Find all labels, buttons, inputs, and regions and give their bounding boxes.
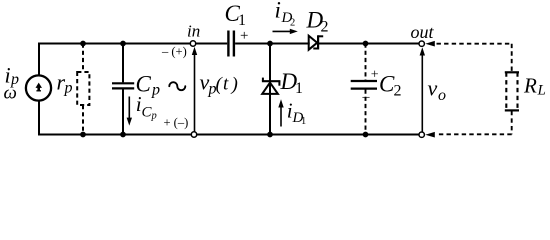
svg-text:1: 1	[301, 116, 306, 127]
wire top rail between C1 and D2	[235, 43, 310, 45]
label iCp	[136, 92, 157, 122]
current source ip circle	[26, 75, 51, 100]
junction dot D1 top	[267, 41, 273, 47]
capacitor C2 plates	[351, 81, 377, 89]
wire top rail left (from top-left corner to C1 left plate)	[39, 44, 227, 135]
svg-text:+: +	[240, 28, 248, 44]
label in	[187, 22, 200, 41]
label vo	[428, 76, 447, 104]
svg-text:2: 2	[394, 82, 402, 99]
svg-text:+ (–): + (–)	[164, 115, 189, 129]
label Cp	[136, 72, 161, 99]
svg-text:p: p	[64, 80, 73, 97]
label minus at C2	[362, 90, 371, 105]
capacitor C2 dashed lead top	[365, 44, 367, 81]
label iD2	[275, 0, 296, 29]
svg-text:o: o	[438, 87, 446, 104]
label iD1	[287, 99, 306, 128]
capacitor Cp bottom lead	[122, 89, 124, 134]
resistor rp dashed lead bottom	[82, 105, 84, 135]
label C2	[379, 71, 402, 99]
capacitor Cp plates	[112, 83, 134, 88]
dashed wire out to RL (top)	[437, 43, 512, 45]
svg-text:R: R	[523, 74, 537, 98]
current arrow iD1 (up)	[278, 99, 283, 126]
label out	[411, 22, 435, 42]
label minus(plus)	[161, 44, 187, 58]
label C1	[225, 1, 247, 29]
dashed wire RL right side top	[511, 44, 513, 72]
svg-text:+: +	[371, 68, 379, 83]
node out bottom (open circle)	[419, 132, 424, 137]
svg-text:1: 1	[295, 80, 303, 97]
dashed wire RL right side bottom	[511, 111, 513, 135]
junction dot C2 bottom	[363, 132, 369, 138]
dashed wire RL to out node (bottom)	[437, 133, 512, 135]
wire top rail from D2 to out node	[317, 43, 419, 45]
label plus at C1	[240, 28, 248, 44]
label rp	[57, 70, 73, 97]
svg-text:– (+): – (+)	[161, 44, 187, 58]
capacitor C2 dashed lead bottom	[365, 90, 367, 135]
vp measurement line with up arrow	[192, 47, 197, 135]
wire bottom rail	[38, 134, 419, 136]
svg-text:out: out	[411, 22, 435, 42]
node in (open circle)	[190, 41, 195, 46]
svg-text:i: i	[275, 0, 281, 23]
svg-text:p: p	[151, 111, 157, 122]
label ip	[5, 62, 20, 88]
node vp bottom (open circle)	[191, 132, 196, 137]
resistor RL dashed box	[505, 72, 519, 110]
junction dot rp top	[80, 41, 86, 47]
svg-text:p: p	[151, 81, 160, 98]
current arrow iCp (down)	[127, 97, 132, 126]
capacitor Cp top lead	[122, 44, 124, 83]
junction dot C2 top	[363, 41, 369, 47]
resistor rp dashed box	[77, 72, 89, 105]
junction dot Cp top	[120, 41, 126, 47]
svg-text:ω: ω	[4, 83, 17, 104]
diode D1 triangle (hollow)	[262, 83, 278, 94]
svg-text:–: –	[362, 90, 371, 105]
vo measurement line with up arrow	[420, 47, 425, 134]
current arrow iD2 (right)	[273, 29, 298, 34]
node out top (open circle)	[419, 41, 424, 46]
arrowhead into out node (bottom, pointing left)	[425, 132, 435, 138]
label D2	[306, 7, 329, 35]
label vp(t)	[200, 70, 238, 98]
resistor rp dashed lead top	[82, 44, 84, 73]
label plus at C2	[371, 68, 379, 83]
diode D1 wire (vertical through)	[269, 44, 271, 135]
diode D1 zener bar	[262, 78, 281, 86]
svg-text:): )	[231, 74, 238, 95]
arrowhead into out node (top, pointing left)	[425, 41, 435, 47]
svg-text:1: 1	[238, 12, 246, 29]
label omega	[4, 83, 17, 104]
svg-text:2: 2	[290, 18, 295, 29]
label RL	[523, 74, 546, 99]
capacitor C1 plates	[228, 31, 234, 57]
junction dot Cp bottom	[120, 132, 126, 138]
svg-text:in: in	[187, 22, 200, 41]
diode D2 triangle (hollow)	[309, 36, 318, 50]
svg-text:t: t	[223, 74, 229, 95]
sine symbol	[169, 82, 185, 90]
svg-text:L: L	[537, 82, 546, 98]
label plus(minus)	[164, 115, 189, 129]
junction dot D1 bottom	[267, 132, 273, 138]
svg-text:v: v	[428, 76, 438, 101]
junction dot rp bottom	[80, 132, 86, 138]
label D1	[280, 69, 304, 97]
diode D2 zener bar	[313, 35, 323, 49]
svg-text:2: 2	[321, 18, 329, 35]
